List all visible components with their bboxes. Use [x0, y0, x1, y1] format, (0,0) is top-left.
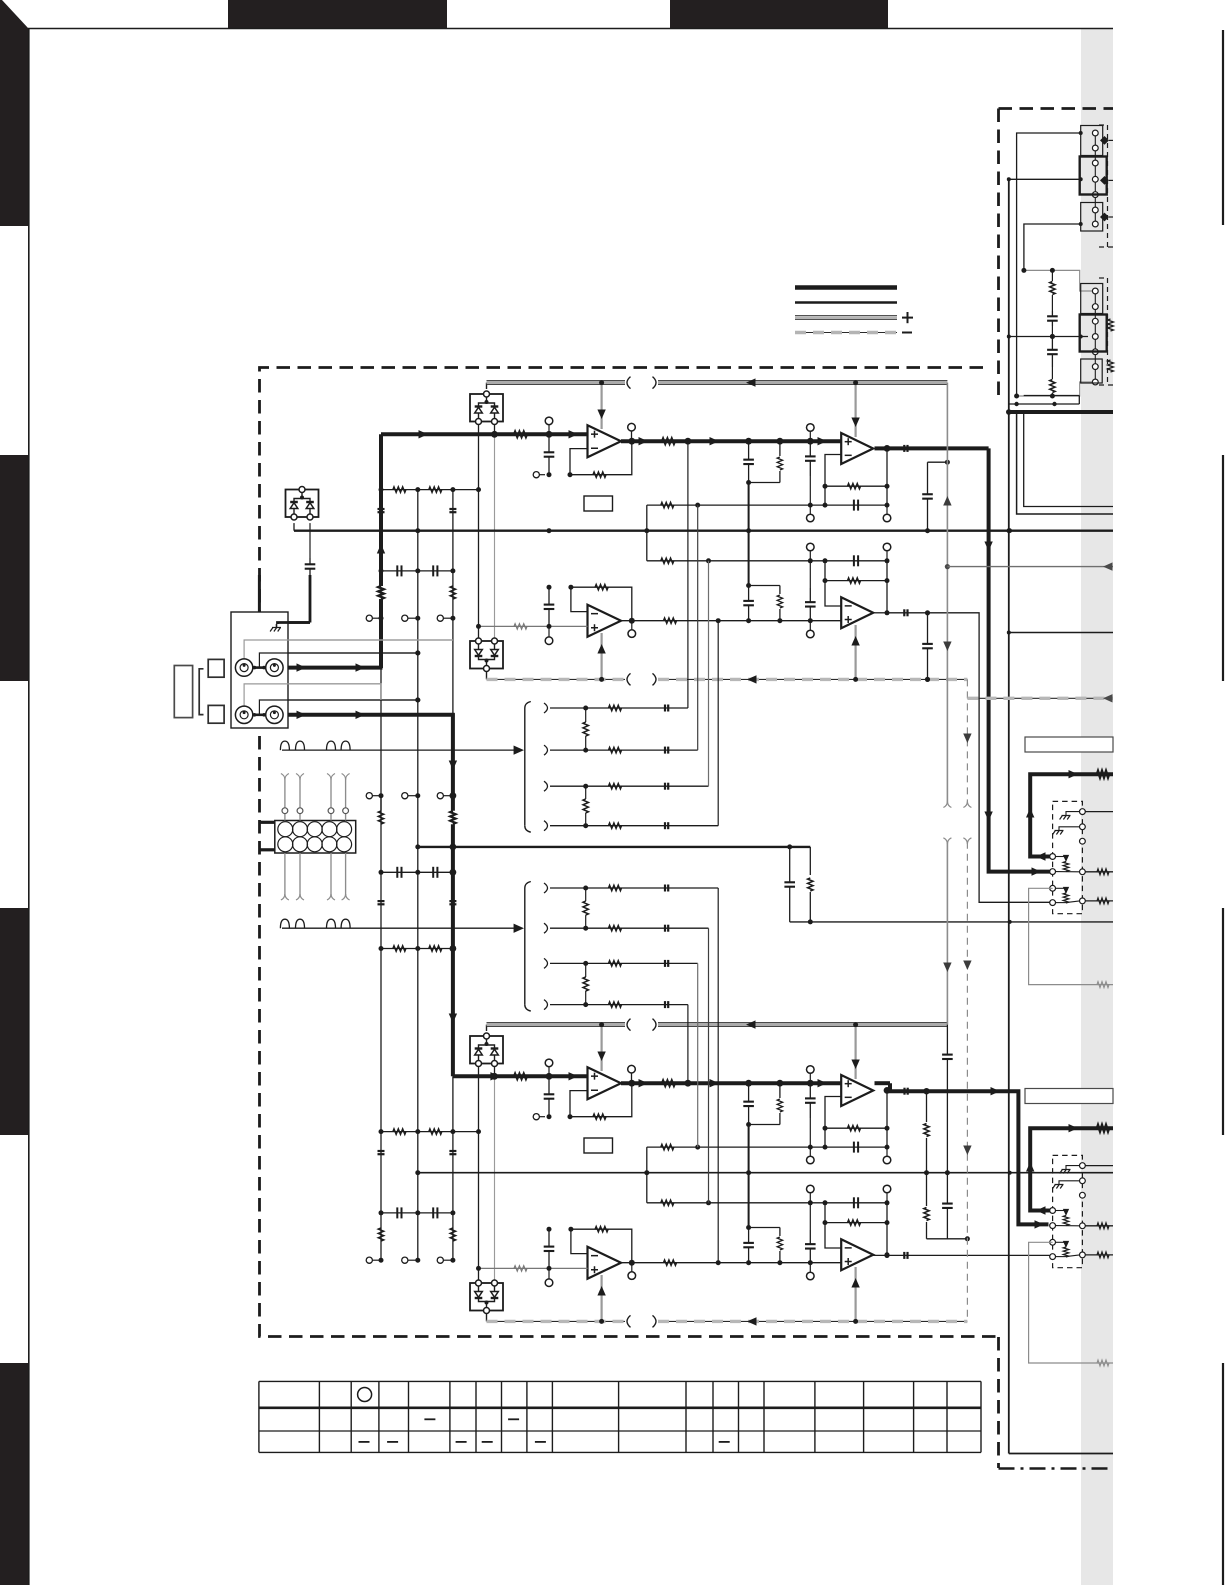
tone network upper row 4 with resistor and bead	[544, 621, 718, 831]
connector CN1 pin column	[1092, 130, 1098, 227]
inner box double (top right)	[1017, 412, 1113, 514]
jack arrow contact 3	[1100, 213, 1113, 222]
feedback network U1B-L	[544, 585, 636, 645]
plus-supply stubs -L	[597, 383, 859, 437]
parts table grid	[259, 1381, 981, 1452]
mute shunt resistors upper	[378, 796, 455, 830]
wire tone row B -R	[647, 1197, 887, 1208]
connector CN1 frame C	[1081, 203, 1103, 232]
panel bracket	[174, 666, 192, 718]
panel screw upper	[208, 659, 224, 677]
panel bracket link	[199, 669, 203, 715]
wire column x381 lower half	[380, 668, 382, 1260]
parts table dashes row3	[359, 1441, 730, 1443]
wire D3 right pin chain	[305, 523, 316, 622]
RCA jack J2 sleeve	[266, 706, 283, 723]
wire connector tap 1	[259, 651, 420, 668]
resistor row input filter L	[379, 487, 482, 492]
wire connector top stub	[258, 575, 261, 612]
wire column x417.8	[417, 490, 419, 1261]
wire U2B output run R-ch	[873, 1252, 1049, 1259]
wire relay stub lower	[260, 848, 275, 851]
wire diode column right -R	[494, 1067, 496, 1281]
wire gray RCA2 tap redraw	[244, 684, 381, 713]
registration bar top 1	[228, 0, 447, 28]
wire tone row A -L	[647, 500, 887, 511]
right board dashed border left lower	[997, 1337, 1000, 1468]
wire feed upper network	[280, 741, 524, 755]
chassis ground symbol	[270, 624, 281, 632]
minus-supply rail -L	[487, 671, 968, 685]
wire to pin CN2-4	[1007, 334, 1088, 339]
tone network upper row 3 with resistor and bead	[544, 561, 709, 791]
connector CN2 pin column	[1092, 288, 1098, 385]
op-amp U2A-R	[841, 1075, 873, 1106]
tone network lower row 4 with resistor and bead	[544, 1000, 688, 1084]
interstage RC filter ladder -R	[743, 1083, 782, 1265]
wire right spine vertical	[1006, 179, 1011, 1453]
input caps and test points U2A-L	[805, 424, 816, 522]
shunt resistors input filter R	[378, 1228, 455, 1241]
op-amp U2A-L	[841, 433, 873, 464]
RCA jack J1 tip	[235, 659, 252, 676]
plus-supply stubs -R	[597, 1025, 859, 1079]
feedback network U1A-R (resistor+capacitor)	[533, 1059, 635, 1120]
level control output wires R	[1085, 1166, 1113, 1258]
wire feed lower network	[280, 919, 524, 933]
ferrite beads mute stage	[378, 900, 457, 905]
input caps and test points U2A-R	[805, 1066, 816, 1164]
RC termination network	[784, 847, 813, 925]
RCA jack J2 tip	[235, 706, 252, 723]
input caps and test points U2B-R	[805, 1185, 816, 1280]
supply decoupling cap lower L-ch	[922, 610, 933, 682]
bias divider column R-ch	[923, 1088, 970, 1241]
jack arrow contact 2	[1100, 176, 1113, 185]
wire tone row C -R	[621, 1260, 841, 1265]
wire mute bus (y=846.9)	[415, 844, 810, 851]
panel screw lower	[208, 705, 224, 723]
supply decoupling cap upper L-ch	[922, 460, 950, 534]
minus-supply rail -R	[487, 1313, 968, 1327]
right board dash-dot bottom border	[999, 1467, 1114, 1470]
wire return line (y=921.9)	[790, 920, 1113, 924]
wire U2B output run L-ch	[873, 609, 1049, 902]
wire trimmer feed thick L	[1026, 770, 1113, 861]
wire input bus -R	[453, 1072, 588, 1080]
page border left	[28, 28, 30, 1585]
plus-supply trunk (gray vertical)	[943, 383, 951, 1025]
wire tone row A -R	[647, 1142, 887, 1153]
registration bar left 4	[0, 1363, 29, 1585]
shunt resistors input filter L	[378, 586, 455, 599]
relay outline box -L	[584, 496, 613, 511]
jack arrow contact 1	[1100, 136, 1113, 145]
wire to pin CN1-4	[1007, 177, 1083, 181]
level control grounds R	[1053, 1166, 1080, 1189]
level control output wires L	[1085, 812, 1113, 904]
feedback network U1A-L (resistor+capacitor)	[533, 417, 635, 478]
diode pack D1-L	[470, 391, 503, 425]
registration line right 3	[1222, 908, 1224, 1135]
ferrite beads input filter L	[378, 508, 457, 513]
wire diode column right -L	[494, 425, 496, 639]
divider chain R/C right side	[1047, 270, 1058, 396]
jack dashed guide upper	[1099, 125, 1113, 247]
wire elbow row A-B -L	[644, 505, 649, 561]
edge resistor stub 2	[1108, 360, 1114, 372]
legend plus sign	[902, 312, 913, 323]
wire jack link line	[1009, 396, 1080, 407]
op-amp U1A-L	[588, 425, 622, 457]
resistor row mute stage	[379, 945, 457, 952]
wire input bus -L	[381, 430, 588, 438]
right board dashed border top	[999, 107, 1114, 110]
feedback network U2A-R	[823, 1087, 891, 1164]
diode pack D3	[286, 487, 319, 521]
tone network upper brace	[525, 702, 531, 833]
level control VR box L	[1053, 801, 1083, 913]
capacitor row input filter R	[379, 1207, 456, 1218]
wire input elbow L-ch	[285, 663, 383, 671]
wire gray RCA1 tap redraw	[244, 640, 453, 666]
legend minus-supply line	[795, 332, 897, 334]
diode pack D2-L	[470, 638, 503, 672]
wire tone row B -L	[647, 555, 887, 566]
level control trimmers L	[1056, 855, 1080, 903]
interstage RC filter ladder -L	[743, 441, 782, 623]
diode pack D2-R	[470, 1280, 503, 1314]
wire gray input U1B-R	[476, 1266, 588, 1271]
capacitor row mute stage	[379, 867, 457, 878]
wire connector tap 1 redraw	[259, 651, 420, 668]
label bar R	[1025, 1089, 1113, 1104]
wire connector tap 2 redraw	[259, 698, 420, 715]
tone network lower brace	[525, 882, 531, 1012]
diode pack D1-R	[470, 1033, 503, 1067]
registration bar top 2	[670, 0, 888, 28]
wire mid bus line R-ch (y=1172.7)	[415, 1170, 1113, 1175]
wire connector tap 2	[259, 698, 420, 715]
relay coil leads (gray)	[281, 774, 350, 901]
connector CN2 frame C	[1081, 359, 1103, 383]
feedback network U2A-L	[823, 445, 891, 522]
connector CN1 frame A	[1081, 126, 1103, 156]
connector CN2 frame A	[1081, 284, 1103, 314]
label bar L	[1025, 737, 1113, 752]
test pin row input filter L	[366, 615, 455, 621]
connector CN1 frame B (bold)	[1080, 157, 1107, 195]
wire ground elbow	[278, 623, 311, 625]
relay outline box -R	[584, 1138, 613, 1153]
plus-supply rail -R	[487, 1019, 948, 1031]
tone network upper row 2 with resistor and bead	[544, 505, 698, 755]
legend minus sign	[902, 332, 912, 334]
gray sidebar band	[1081, 28, 1113, 1585]
tone network upper vertical resistors	[583, 708, 588, 826]
tone network lower row 3 with resistor and bead	[544, 958, 698, 1147]
wire exit minus dashed (y=698.3)	[967, 694, 1113, 702]
wire gray return L	[1029, 888, 1113, 987]
wire main output run L-ch (to level control)	[875, 445, 1053, 876]
test pin row input filter R	[366, 1257, 455, 1263]
wire ground elbow (redraw)	[278, 623, 311, 625]
wire gray RCA1 tap	[244, 640, 453, 666]
level control VR box R	[1053, 1155, 1083, 1267]
parts table circle mark	[358, 1388, 372, 1402]
wire interstage bus -L	[621, 437, 841, 445]
wire diode column left -R	[478, 1067, 480, 1281]
wire to pin CN1-7	[1024, 222, 1083, 270]
legend thick-signal line	[795, 285, 897, 290]
wire to pin CN1-1	[1017, 131, 1083, 396]
wire right spine bottom elbow	[1009, 1453, 1113, 1455]
op-amp U2B-R	[841, 1239, 873, 1270]
wire column x452.9 upper	[452, 490, 454, 715]
op-amp U1A-R	[588, 1067, 622, 1099]
wire J2 link	[253, 713, 266, 717]
registration bar left 3	[0, 908, 29, 1135]
wire gray input U1B-L	[476, 624, 588, 629]
wire exit gray (y=566.6)	[947, 562, 1113, 570]
level control pins R	[1050, 1163, 1086, 1260]
registration line right 2	[1222, 455, 1224, 681]
minus-supply stubs -R	[597, 1267, 859, 1321]
op-amp U1B-R	[588, 1247, 622, 1279]
wire thick power feed	[1006, 409, 1113, 415]
feedback network U1B-R	[544, 1227, 636, 1287]
level control grounds L	[1053, 812, 1080, 835]
connector CN2 frame B (bold)	[1080, 315, 1107, 352]
tone network lower vertical resistors	[583, 888, 588, 1005]
wire D3 left pin to mid bus	[293, 523, 295, 531]
main board dashed border	[260, 368, 998, 1337]
legend plus-supply line	[795, 316, 897, 320]
wire elbow row A-B -R	[644, 1147, 649, 1203]
test point above U1A-R output	[628, 1065, 636, 1083]
edge resistor stub 1	[1108, 319, 1114, 331]
wire gray return R	[1029, 1242, 1113, 1366]
level control pins L	[1050, 809, 1086, 906]
relay contact block RL1	[275, 821, 356, 854]
level control trimmers R	[1056, 1209, 1080, 1257]
wire gray to pin CN2-7	[1014, 382, 1092, 399]
tone network upper row 1 with resistor and bead	[544, 441, 688, 713]
wire J1 link	[253, 666, 266, 670]
wire riser thick R-ch input	[449, 713, 457, 1076]
resistor row input filter R	[379, 1129, 482, 1134]
wire relay stub upper	[260, 821, 275, 824]
wire column x452.9 lower	[452, 1076, 454, 1260]
test point above U1A-L output	[628, 423, 636, 441]
wire mid bus line L-ch (y=530.7)	[294, 528, 1113, 533]
right board dashed border left upper	[997, 109, 1000, 401]
wire gray RCA2 tap	[244, 684, 381, 713]
wire interstage bus -R	[621, 1079, 841, 1087]
wire tone row C -L	[621, 618, 841, 623]
input caps and test points U2B-L	[805, 543, 816, 638]
wire riser thick L-ch input	[377, 434, 385, 668]
test pin row mute stage	[366, 792, 456, 799]
wire gray to pin CN2-1	[1021, 268, 1092, 291]
minus-supply trunk (gray dashed vertical)	[963, 679, 971, 1321]
feedback network U2B-R	[823, 1185, 891, 1257]
corner registration mark top-left	[0, 0, 29, 226]
wire diode column left -L	[478, 425, 480, 639]
registration line right 4	[1222, 1363, 1224, 1585]
wire trimmer feed thick R	[1026, 1124, 1113, 1215]
jack dashed guide lower	[1099, 278, 1113, 385]
feedback network U2B-L	[823, 543, 891, 615]
chassis ground (connector)	[270, 624, 281, 632]
wire exit black (y=632.5)	[1009, 632, 1113, 634]
wire main output run R-ch (to level control)	[875, 1083, 1049, 1228]
op-amp U2B-L	[841, 597, 873, 628]
capacitor row input filter L	[379, 565, 456, 576]
input connector box	[231, 612, 288, 728]
op-amp U1B-L	[588, 605, 622, 637]
tone network lower row 2 with resistor and bead	[544, 923, 709, 1203]
RCA jack J1 sleeve	[266, 659, 283, 676]
supply decoupling column R-ch	[942, 1025, 953, 1239]
registration line right 1	[1222, 30, 1224, 225]
legend medium-signal line	[795, 301, 897, 304]
ferrite beads input filter R	[378, 1150, 457, 1155]
parts table dashes row2	[424, 1418, 519, 1420]
minus-supply stubs -L	[597, 625, 859, 679]
page border top	[28, 28, 1113, 30]
wire input elbow R-ch	[285, 711, 455, 719]
tone network lower row 1 with resistor and bead	[544, 883, 718, 1263]
registration bar left 2	[0, 455, 29, 681]
plus-supply rail -L	[487, 377, 948, 389]
